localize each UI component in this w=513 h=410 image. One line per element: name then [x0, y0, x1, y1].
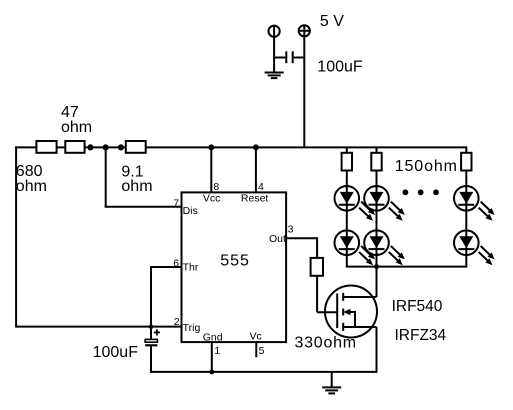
node drain junction dot: [374, 264, 379, 269]
resistor R1 680ohm: [36, 141, 56, 153]
svg-text:IRF540: IRF540: [392, 298, 443, 315]
node junction dot a: [87, 144, 93, 150]
battery minus terminal: [273, 26, 275, 72]
wire thr horizontal: [151, 266, 182, 268]
svg-text:8: 8: [213, 181, 219, 193]
svg-text:Thr: Thr: [183, 262, 199, 274]
svg-text:100uF: 100uF: [93, 344, 139, 361]
svg-text:4: 4: [258, 181, 264, 193]
wire out: [286, 237, 317, 239]
wire led bottom rail: [347, 266, 467, 268]
wire dis horizontal: [105, 206, 182, 208]
wire bottom rail: [151, 371, 377, 373]
svg-text:Reset: Reset: [241, 193, 269, 205]
wire led column 3: [465, 146, 467, 267]
wire led column 2: [376, 147, 378, 267]
resistor R2 47ohm: [65, 141, 84, 153]
ellipsis dots: [403, 189, 409, 195]
svg-text:6: 6: [173, 257, 179, 269]
pin 8 Vcc: [210, 147, 212, 192]
resistor R6 150ohm col2: [371, 153, 381, 171]
LED D5: [364, 230, 405, 265]
svg-text:Vcc: Vcc: [203, 193, 221, 205]
LED D1: [335, 186, 376, 221]
node junction dot b: [103, 144, 109, 150]
wire left edge vertical: [15, 146, 17, 327]
pin 4 Reset: [255, 147, 257, 192]
svg-text:3: 3: [288, 223, 294, 235]
resistor R3 9.1ohm: [126, 141, 146, 153]
svg-text:Out: Out: [269, 233, 286, 245]
svg-text:Vc: Vc: [250, 331, 262, 343]
LED D6: [454, 230, 495, 265]
svg-text:Dis: Dis: [183, 205, 198, 217]
transistor Q1 MOSFET: [325, 286, 377, 338]
wire thr vertical: [150, 266, 152, 327]
resistor R7 150ohm col3: [461, 153, 471, 171]
svg-text:7: 7: [173, 198, 179, 210]
battery plus terminal: [303, 25, 305, 147]
wire source: [376, 327, 378, 373]
resistor R5 150ohm col1: [342, 153, 352, 171]
wire drain: [376, 267, 378, 297]
svg-text:100uF: 100uF: [317, 58, 363, 75]
node junction dot c: [118, 144, 124, 150]
ground top: [265, 72, 284, 74]
node trig junction dot: [149, 325, 154, 330]
pin 1 Gnd: [211, 342, 213, 372]
svg-text:1: 1: [214, 345, 220, 357]
ground bottom: [331, 372, 333, 388]
svg-text:5: 5: [259, 345, 265, 357]
svg-text:ohm: ohm: [16, 178, 47, 195]
pin 5 Vc: [255, 342, 257, 357]
svg-text:Trig: Trig: [183, 322, 201, 334]
svg-text:5 V: 5 V: [320, 13, 344, 30]
svg-text:IRFZ34: IRFZ34: [395, 327, 447, 344]
wire top rail: [15, 146, 467, 148]
svg-text:2: 2: [174, 316, 180, 328]
LED D4: [335, 230, 376, 265]
svg-text:ohm: ohm: [121, 178, 152, 195]
wire dis branch vertical: [105, 147, 107, 206]
svg-text:ohm: ohm: [61, 119, 92, 136]
svg-text:555: 555: [220, 253, 250, 270]
capacitor C2 100uF polarized: [150, 327, 152, 340]
svg-text:Gnd: Gnd: [203, 331, 223, 343]
wire trig horizontal: [16, 326, 181, 328]
op-amp U1 555 body: [182, 192, 287, 342]
capacitor C1 100uF: [274, 57, 285, 59]
resistor R4 330ohm: [311, 258, 323, 276]
LED D2: [364, 186, 405, 221]
LED D3: [454, 186, 495, 221]
svg-text:150ohm: 150ohm: [395, 158, 458, 175]
wire led column 1: [346, 147, 348, 267]
